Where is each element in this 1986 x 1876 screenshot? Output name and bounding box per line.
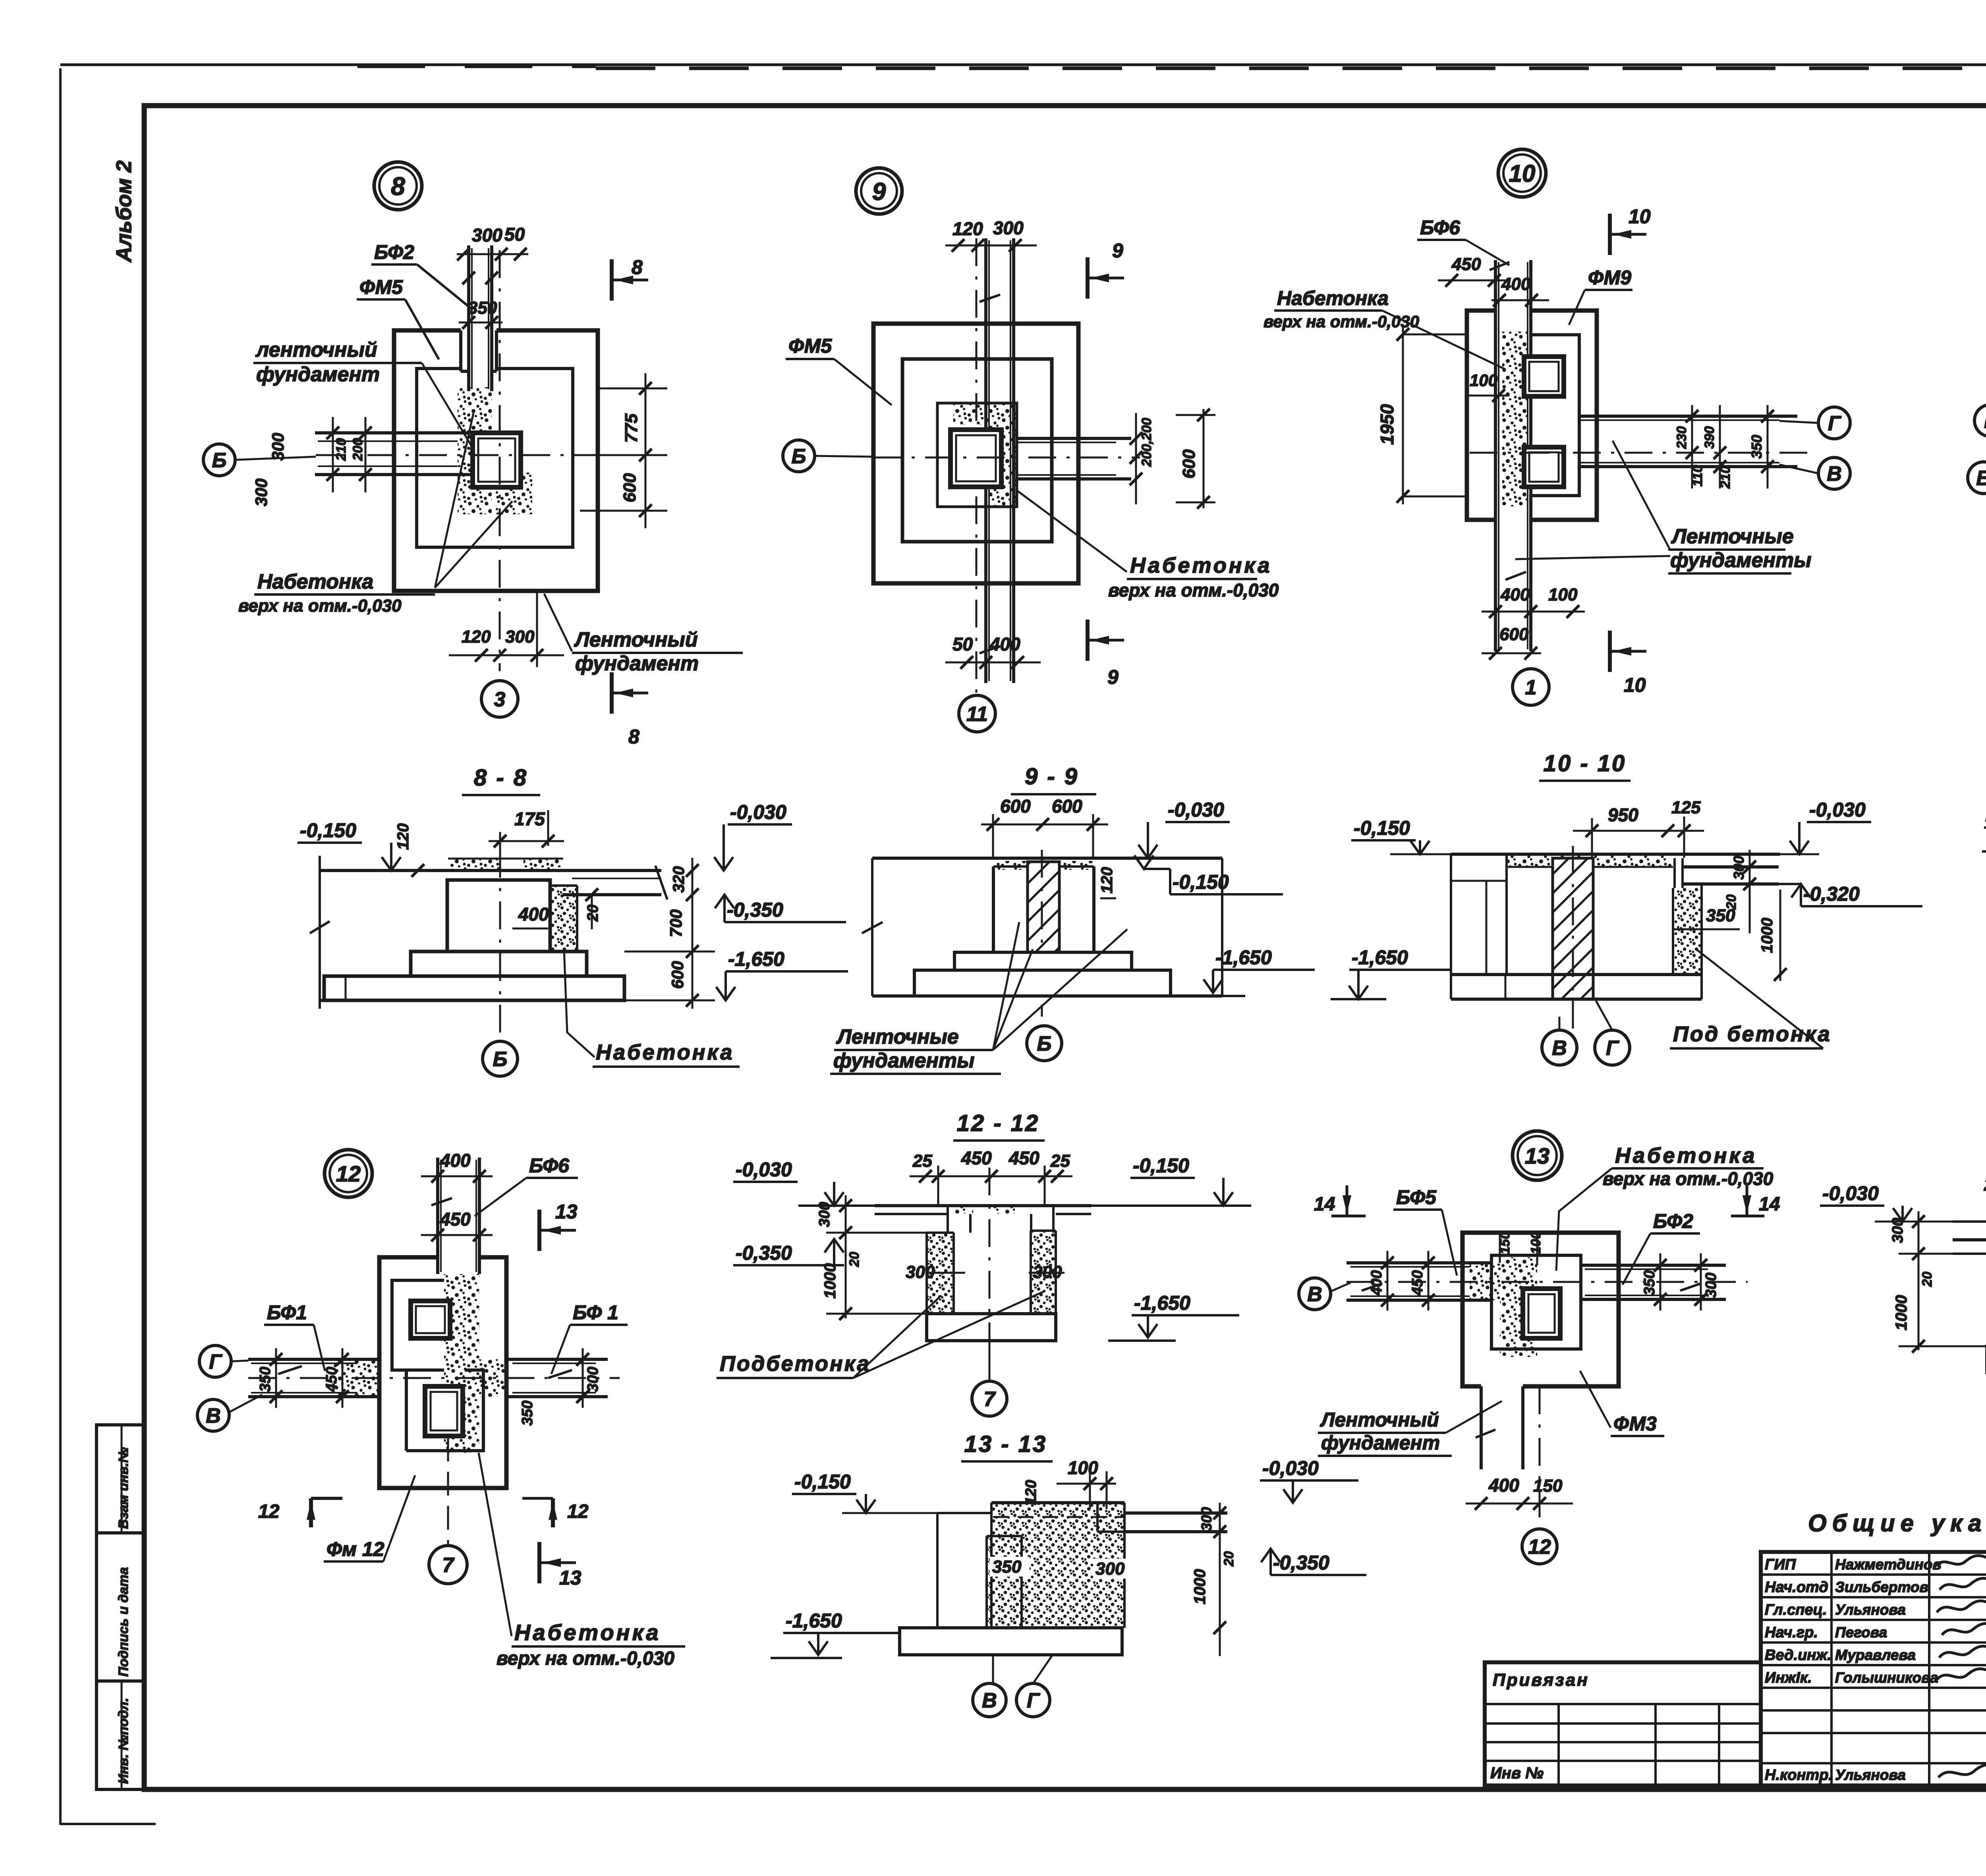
section 9-9: hatched central wall — [1028, 850, 1059, 1017]
detail 9: top dimension 120 300 — [945, 218, 1037, 252]
svg-text:210: 210 — [334, 438, 349, 461]
detail 9: axis circle B left — [783, 440, 1140, 472]
detail 12: left dims 350 450 — [257, 1348, 349, 1408]
svg-text:14: 14 — [1314, 1194, 1335, 1215]
detail 10: axis circle 1 bottom — [1513, 669, 1549, 705]
detail 8: vertical axis line to node 3 — [499, 250, 501, 671]
svg-text:Фм 12: Фм 12 — [326, 1538, 384, 1560]
section 9-9: level -1.650 — [1182, 946, 1315, 996]
svg-text:120: 120 — [952, 218, 983, 239]
detail 8: dimension 350 on strip — [459, 298, 502, 329]
section 10-10: base slab — [1451, 975, 1702, 999]
section 10-10: axis circle G — [1595, 1001, 1630, 1065]
section 13-13: level -0.030 right — [1260, 1457, 1358, 1503]
svg-text:Общие указания на листе 4.: Общие указания на листе 4. — [1808, 1510, 1986, 1536]
svg-text:Набетонка: Набетонка — [1277, 287, 1389, 309]
svg-text:верх на отм.-0,030: верх на отм.-0,030 — [1263, 312, 1419, 331]
svg-text:450: 450 — [440, 1209, 471, 1229]
svg-text:БФ2: БФ2 — [1653, 1210, 1693, 1232]
svg-text:Гл.спец.: Гл.спец. — [1765, 1602, 1827, 1618]
detail 9: axis circle 11 bottom — [959, 695, 995, 732]
svg-text:300: 300 — [269, 433, 287, 461]
detail 10: label BF6 — [1417, 216, 1509, 265]
svg-text:400: 400 — [518, 904, 549, 924]
section 9-9: label lentochnye fundamenty — [830, 922, 1127, 1074]
svg-text:Альбом 2: Альбом 2 — [112, 160, 136, 263]
section 10-10: top line and left wall — [1451, 854, 1780, 975]
detail 9: section mark 9 top — [1088, 239, 1124, 299]
svg-text:775: 775 — [622, 413, 641, 443]
detail 10: label lentochnye fundamenty — [1515, 441, 1812, 573]
detail 8: label lentochnyj fundament (left) — [253, 338, 473, 448]
detail 10: nabetonka stipple band — [1502, 332, 1528, 506]
detail 8: label lentochnyj fundament (bottom right) — [544, 594, 743, 675]
svg-text:Ленточный: Ленточный — [574, 628, 698, 651]
svg-text:100: 100 — [1528, 1231, 1544, 1254]
svg-text:ИнжIк.: ИнжIк. — [1765, 1669, 1812, 1686]
svg-text:50: 50 — [952, 634, 973, 654]
section 8-8: ground/floor top line — [310, 856, 563, 1009]
svg-text:600: 600 — [1052, 796, 1082, 816]
signature row Нач.гр. — [1765, 1623, 1986, 1641]
svg-text:12: 12 — [336, 1161, 361, 1186]
svg-text:-1,650: -1,650 — [1215, 946, 1272, 969]
svg-text:ГИП: ГИП — [1765, 1556, 1796, 1573]
svg-text:Г: Г — [1027, 1689, 1040, 1712]
detail 9: circled node number 9 — [856, 168, 902, 214]
detail 8: axis circle 3 (bottom) — [481, 681, 518, 717]
svg-text:БФ2: БФ2 — [374, 241, 414, 263]
svg-text:10 - 10: 10 - 10 — [1544, 751, 1627, 776]
svg-text:-0,350: -0,350 — [736, 1242, 792, 1264]
section 10-10: level -1.650 — [1331, 946, 1452, 999]
detail 12: label BF1 right — [551, 1301, 628, 1374]
svg-text:8: 8 — [628, 726, 639, 748]
section 9-9: axis circle B — [1027, 1026, 1062, 1061]
section 12-12: right pedestal stipple — [1029, 1231, 1064, 1314]
svg-text:Ульянова: Ульянова — [1835, 1767, 1906, 1783]
detail 8: section mark 8 bottom — [612, 672, 648, 748]
svg-text:200: 200 — [350, 438, 365, 461]
svg-text:Ленточные: Ленточные — [1671, 525, 1794, 548]
section 12-12: title — [953, 1110, 1045, 1141]
svg-text:7: 7 — [442, 1554, 455, 1577]
section 8-8: right dim chain 320 700 600 — [624, 858, 715, 1009]
detail 9: bottom dimension 50 400 — [945, 634, 1041, 669]
svg-text:фундамент: фундамент — [1321, 1432, 1440, 1454]
detail 8: circled node number 8 — [374, 162, 422, 210]
svg-text:фундамент: фундамент — [575, 652, 699, 675]
svg-text:верх на отм.-0,030: верх на отм.-0,030 — [1108, 580, 1279, 600]
svg-text:230: 230 — [1674, 426, 1689, 449]
svg-text:450: 450 — [961, 1148, 992, 1168]
svg-text:11: 11 — [966, 703, 988, 726]
svg-text:Ленточные: Ленточные — [836, 1025, 959, 1048]
svg-text:-0,350: -0,350 — [1273, 1552, 1329, 1574]
detail 13: top dims 150 100 rotated — [1497, 1231, 1544, 1265]
detail 12: left strip band — [248, 1359, 379, 1397]
detail 12: label BF6 — [475, 1154, 578, 1216]
detail 9: middle slab step — [902, 359, 1052, 542]
detail 12: section mark 12 right — [522, 1498, 589, 1527]
svg-text:-0,320: -0,320 — [1803, 883, 1860, 905]
section 12-12: label podbetonka — [717, 1291, 1044, 1378]
svg-text:Б: Б — [493, 1048, 508, 1071]
detail 10: lower column cross-section — [1524, 447, 1564, 487]
detail 12: right dims 300 350 — [519, 1348, 601, 1426]
detail 13: left strip band BF5 — [1347, 1263, 1491, 1300]
svg-text:120: 120 — [462, 627, 491, 647]
detail 8: concrete topping (nabetonka) stipple — [458, 387, 532, 514]
svg-text:8: 8 — [391, 172, 405, 201]
section 8-8: dim 175 — [489, 809, 564, 850]
svg-text:300: 300 — [1033, 1262, 1062, 1282]
svg-text:12: 12 — [258, 1501, 280, 1522]
detail 11: axis circle V — [1968, 457, 1986, 494]
svg-text:Г: Г — [209, 1351, 222, 1374]
svg-text:350: 350 — [257, 1367, 274, 1392]
detail 10: circled node number 10 — [1498, 149, 1546, 197]
section 8-8: level -0.030 — [714, 801, 792, 870]
svg-text:3: 3 — [494, 688, 506, 711]
svg-text:Пегова: Пегова — [1835, 1624, 1887, 1641]
svg-text:-0,150: -0,150 — [1173, 871, 1229, 893]
svg-text:БФ6: БФ6 — [1420, 216, 1461, 239]
signature row ГИП — [1765, 1556, 1986, 1573]
svg-text:Под бетонка: Под бетонка — [1673, 1022, 1831, 1046]
svg-text:-0,030: -0,030 — [1822, 1182, 1879, 1204]
section 12-12: level -0.350 — [733, 1239, 844, 1265]
svg-text:ФМ5: ФМ5 — [359, 276, 403, 298]
scan tape marks along top edge — [357, 67, 1986, 68]
section 13-13: right floor slab — [993, 1503, 1227, 1532]
detail 10: dimension 100 — [1466, 371, 1509, 402]
section 10-10: level -0.030 — [1780, 799, 1871, 854]
section 8-8: level -0.150 — [298, 819, 401, 870]
detail 8: left dimension ticks and 300/300 — [252, 417, 372, 506]
left margin box: Inv no podl — [97, 1681, 143, 1789]
svg-text:-0,030: -0,030 — [736, 1158, 792, 1181]
detail 13: nabetonka stipple — [1470, 1257, 1537, 1357]
detail 9: wall strip vertical — [979, 238, 1014, 683]
svg-text:фундаменты: фундаменты — [833, 1049, 975, 1072]
svg-text:Взам инв.№: Взам инв.№ — [116, 1447, 131, 1529]
svg-text:600: 600 — [1499, 625, 1529, 644]
detail 12: nabetonka stipple band — [334, 1274, 507, 1453]
detail 10: section mark 10 bottom — [1610, 631, 1646, 696]
svg-text:400: 400 — [1500, 585, 1530, 604]
section 14-14: top slab — [1953, 1222, 1986, 1254]
section 10-10: level -0.150 — [1351, 817, 1451, 854]
svg-text:-0,030: -0,030 — [1262, 1457, 1319, 1479]
svg-text:12: 12 — [567, 1501, 589, 1522]
section 8-8: center axis line to B — [499, 850, 501, 1040]
svg-text:Подпись и дата: Подпись и дата — [116, 1567, 131, 1677]
svg-text:20: 20 — [1221, 1551, 1236, 1567]
section 9-9: base slab — [914, 970, 1171, 996]
detail 9: label FM5 — [786, 335, 892, 405]
svg-text:БФ 1: БФ 1 — [573, 1301, 618, 1324]
svg-text:10: 10 — [1509, 160, 1536, 187]
section 12-12: inner 300 labels — [906, 1262, 1062, 1282]
svg-text:10: 10 — [1624, 674, 1646, 696]
detail 8: right dimension chain 775/600 — [580, 373, 667, 528]
left margin box: Vzam inv no — [97, 1425, 143, 1533]
signature row N.kontr — [1765, 1765, 1986, 1783]
section 8-8: floor slab right — [562, 866, 667, 899]
detail 10: inner slab outline — [1495, 335, 1579, 496]
svg-text:9: 9 — [872, 178, 886, 205]
svg-text:В: В — [206, 1405, 221, 1428]
detail 12: lower column cross-section — [425, 1386, 463, 1436]
svg-text:400: 400 — [440, 1150, 471, 1171]
svg-text:400: 400 — [1501, 274, 1531, 294]
detail 9: strip foundation band right — [1017, 438, 1131, 479]
detail 12: right strip band — [506, 1359, 608, 1397]
svg-text:В: В — [982, 1689, 997, 1712]
title block: privyazan table — [1485, 1662, 1761, 1785]
svg-text:350: 350 — [1706, 906, 1735, 925]
left margin box: Podpis i data — [97, 1533, 143, 1681]
svg-text:Н.контр.: Н.контр. — [1765, 1767, 1833, 1783]
section 13-13: title — [961, 1431, 1053, 1461]
section 13-13: main stippled block — [991, 1503, 1124, 1628]
detail 10: wall strip vertical — [1489, 260, 1531, 651]
detail 8: column cross-section — [473, 433, 521, 487]
svg-text:-1,650: -1,650 — [1134, 1292, 1190, 1314]
section 13-13: dim 120 — [1023, 1480, 1039, 1505]
general note: see sheet 4 — [1808, 1510, 1986, 1536]
detail 8: outer foundation slab FM5 outline — [394, 330, 598, 591]
signature row ИнжIк. — [1765, 1669, 1986, 1686]
section 10-10: dims 950 125 — [1573, 798, 1704, 858]
svg-text:9 - 9: 9 - 9 — [1025, 764, 1079, 789]
detail 12: dim 400 — [421, 1150, 493, 1183]
svg-text:125: 125 — [1671, 798, 1701, 817]
section 13-13: level -1.650 — [771, 1610, 901, 1658]
title block: signature table — [1761, 1552, 1986, 1785]
detail 13: bottom strip — [1476, 1386, 1540, 1525]
detail 8: inner slab step outline — [417, 369, 573, 547]
detail 12: axis circle V — [197, 1395, 262, 1431]
detail 12: section mark 13 bottom — [539, 1542, 582, 1589]
svg-text:350: 350 — [1748, 435, 1765, 459]
svg-text:12: 12 — [1528, 1536, 1551, 1559]
section 8-8: nabetonka side stipple — [549, 886, 577, 952]
svg-text:7: 7 — [984, 1388, 996, 1411]
svg-text:-0,030: -0,030 — [1809, 799, 1866, 821]
detail 12: axis circle 7 — [429, 1438, 467, 1584]
detail 10: strip foundation band right — [1470, 416, 1811, 467]
detail 9: inner nabetonka boundary — [937, 403, 1017, 507]
svg-text:Г: Г — [1984, 410, 1986, 433]
section 10-10: podbetonka stipple block — [1673, 884, 1702, 975]
section 10-10: axis circle V — [1542, 1017, 1577, 1065]
svg-text:Инв. №подл.: Инв. №подл. — [116, 1698, 131, 1784]
detail 13: section mark 14 top right — [1731, 1185, 1780, 1216]
svg-text:Набетонка: Набетонка — [514, 1620, 661, 1645]
section 10-10: label podbetonka — [1670, 949, 1831, 1048]
detail 12: label BF1 left — [264, 1301, 325, 1371]
svg-text:Г: Г — [1828, 412, 1841, 435]
detail 9: nabetonka stipple — [953, 403, 1017, 507]
svg-text:ленточный: ленточный — [255, 338, 377, 361]
svg-text:20: 20 — [847, 1252, 862, 1267]
svg-text:Набетонка: Набетонка — [257, 570, 373, 593]
detail 8: strip foundation band from left — [315, 433, 473, 475]
detail 13: label FM3 — [1580, 1371, 1664, 1436]
svg-text:320: 320 — [670, 866, 688, 893]
detail 10: left dimension 1950 — [1377, 326, 1467, 504]
section 10-10: hatched wall — [1553, 846, 1593, 1033]
section 9-9: dim 120 — [1098, 867, 1116, 898]
svg-text:ФМ9: ФМ9 — [1588, 266, 1631, 289]
svg-text:13: 13 — [1525, 1143, 1549, 1168]
svg-text:700: 700 — [667, 909, 685, 937]
detail 12: outer slab outline — [379, 1257, 506, 1488]
section 8-8: dim 20 — [585, 888, 601, 929]
svg-text:300: 300 — [993, 218, 1024, 238]
detail 9: column cross-section — [950, 430, 1001, 487]
section 8-8: level -1.650 — [716, 948, 848, 1000]
svg-text:8 - 8: 8 - 8 — [474, 765, 528, 791]
svg-text:фундамент: фундамент — [256, 363, 380, 386]
svg-text:В: В — [1307, 1283, 1322, 1306]
svg-text:В: В — [1976, 467, 1986, 490]
svg-text:-0,150: -0,150 — [1354, 817, 1410, 839]
svg-text:-1,650: -1,650 — [728, 948, 784, 970]
section 12-12: level -0.030 — [733, 1158, 875, 1206]
svg-text:БФ5: БФ5 — [1396, 1186, 1437, 1208]
detail 10: section mark 10 top — [1610, 205, 1651, 255]
section 14-14: top dims 25 25 120 — [1984, 1174, 1986, 1227]
svg-text:Б: Б — [792, 445, 806, 468]
svg-text:300: 300 — [816, 1202, 833, 1227]
detail 8: bottom dimension 120 300 — [449, 592, 564, 667]
section 12-12: level -1.650 — [1108, 1292, 1239, 1341]
detail 13: bottom dims 400 150 — [1466, 1475, 1573, 1510]
detail 12: label nabetonka verh — [479, 1453, 685, 1669]
detail 10: label FM9 — [1569, 266, 1632, 325]
section 8-8: dim 400 label — [512, 904, 549, 928]
section 8-8: nabetonka stipple strips on top — [448, 859, 563, 870]
detail 13: left dims 400 450 — [1368, 1251, 1435, 1310]
svg-text:600: 600 — [620, 473, 639, 502]
svg-text:Зильбертов: Зильбертов — [1835, 1579, 1928, 1595]
section 12-12: wall stubs — [948, 1207, 1053, 1233]
svg-text:350: 350 — [519, 1401, 536, 1426]
section 9-9: footing step — [954, 952, 1132, 970]
svg-text:300: 300 — [252, 479, 270, 506]
detail 13: inner step outline — [1491, 1255, 1581, 1349]
detail 13: label BF5 — [1393, 1186, 1457, 1276]
section 10-10: right floor slab — [1675, 858, 1779, 888]
svg-text:Нажметдинов: Нажметдинов — [1835, 1556, 1942, 1573]
svg-text:-0,030: -0,030 — [1168, 799, 1224, 821]
section title 10-10 — [1539, 751, 1631, 781]
svg-text:300: 300 — [1198, 1507, 1215, 1531]
detail 13: outer slab outline — [1462, 1233, 1619, 1386]
svg-text:Набетонка: Набетонка — [1615, 1144, 1757, 1168]
svg-text:100: 100 — [1068, 1457, 1098, 1478]
svg-text:1: 1 — [1525, 676, 1537, 699]
svg-text:390: 390 — [1702, 426, 1717, 449]
svg-text:1000: 1000 — [1758, 918, 1776, 953]
svg-text:Привязан: Привязан — [1493, 1670, 1589, 1690]
detail 12: label FM12 — [324, 1475, 415, 1561]
detail 13: axis circle 12 bottom — [1522, 1529, 1557, 1564]
detail 11: axis circle G — [1974, 405, 1986, 436]
svg-text:450: 450 — [1409, 1270, 1426, 1296]
section 9-9: level -0.030 — [1138, 799, 1230, 858]
svg-text:9: 9 — [1107, 666, 1119, 688]
detail 8: precast wall strip BF2 from top — [462, 245, 498, 391]
detail 10: right band dimensions — [1674, 405, 1774, 489]
section 12-12: left dim chain 300 20 1000 — [816, 1195, 929, 1320]
svg-text:300: 300 — [472, 225, 502, 245]
detail 9: outer foundation slab — [873, 324, 1078, 583]
svg-text:9: 9 — [1112, 239, 1123, 262]
svg-text:600: 600 — [668, 961, 687, 989]
section 9-9: outline box — [862, 858, 1222, 996]
section 12-12: left pedestal stipple — [925, 1233, 965, 1314]
svg-text:210: 210 — [1718, 466, 1733, 489]
detail 12: axis circle G — [199, 1345, 620, 1378]
svg-text:400: 400 — [1488, 1475, 1519, 1496]
detail 13: right dims 350 300 — [1641, 1253, 1719, 1310]
svg-text:1000: 1000 — [821, 1263, 839, 1299]
detail 9: right dimension 200 200 600 — [1130, 409, 1215, 509]
svg-text:Г: Г — [1606, 1037, 1619, 1060]
detail 8: top dimension 300 50 — [457, 224, 528, 261]
section 13-13: left pedestal stipple — [987, 1536, 1022, 1628]
detail 12: circled node number 12 — [325, 1150, 372, 1197]
detail 10: outer slab outline — [1467, 311, 1597, 520]
detail 8: label BF2 — [371, 241, 473, 310]
signature row Нач.отд — [1765, 1578, 1986, 1596]
svg-text:Б: Б — [212, 449, 227, 472]
svg-text:600: 600 — [1179, 449, 1199, 479]
svg-text:14: 14 — [1759, 1194, 1780, 1215]
svg-text:Набетонка: Набетонка — [1130, 554, 1272, 577]
svg-text:-0,150: -0,150 — [794, 1471, 851, 1493]
svg-text:450: 450 — [1008, 1148, 1039, 1168]
signature row Вед.инж. — [1765, 1646, 1986, 1664]
detail 13: circled node number 13 — [1513, 1131, 1562, 1180]
svg-text:300: 300 — [585, 1367, 601, 1392]
svg-text:400: 400 — [989, 634, 1020, 654]
svg-text:400: 400 — [1368, 1270, 1385, 1296]
svg-text:Муравлева: Муравлева — [1835, 1647, 1916, 1663]
svg-text:13: 13 — [555, 1200, 578, 1223]
svg-text:1000: 1000 — [1893, 1295, 1910, 1330]
section 13-13: footing — [900, 1628, 1122, 1655]
svg-text:120: 120 — [1098, 867, 1116, 894]
svg-text:110: 110 — [1690, 465, 1705, 486]
section 13-13: axis circle G — [1016, 1655, 1053, 1717]
detail 13: section mark 14 top left — [1314, 1185, 1366, 1216]
detail 8: section mark 8 top right — [612, 256, 648, 301]
svg-text:13: 13 — [559, 1567, 582, 1589]
detail 12: section mark 12 left — [258, 1498, 342, 1527]
svg-text:-0,350: -0,350 — [727, 899, 783, 921]
svg-text:20: 20 — [585, 905, 601, 922]
svg-text:Б: Б — [1037, 1033, 1052, 1056]
section 13-13: level -0.350 right — [1261, 1549, 1366, 1575]
section 13-13: right dim chain 300 20 1000 — [1191, 1503, 1236, 1656]
detail 10: dimension 450 / 400 — [1438, 255, 1549, 307]
svg-text:300: 300 — [1889, 1218, 1906, 1243]
